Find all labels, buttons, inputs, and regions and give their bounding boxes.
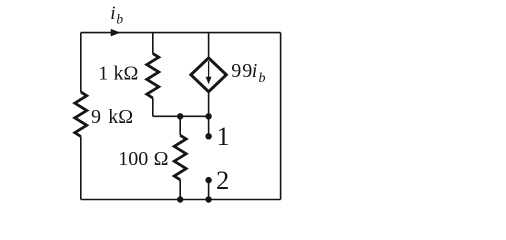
svg-text:b: b [116,12,123,27]
svg-text:9 kΩ: 9 kΩ [91,106,133,128]
svg-text:1: 1 [217,121,230,151]
svg-text:i: i [110,3,115,24]
svg-text:i: i [252,60,258,82]
svg-text:1 kΩ: 1 kΩ [98,63,138,85]
svg-text:99: 99 [231,60,253,82]
svg-text:2: 2 [216,165,229,195]
svg-text:100 Ω: 100 Ω [118,148,168,170]
svg-text:b: b [259,71,266,86]
